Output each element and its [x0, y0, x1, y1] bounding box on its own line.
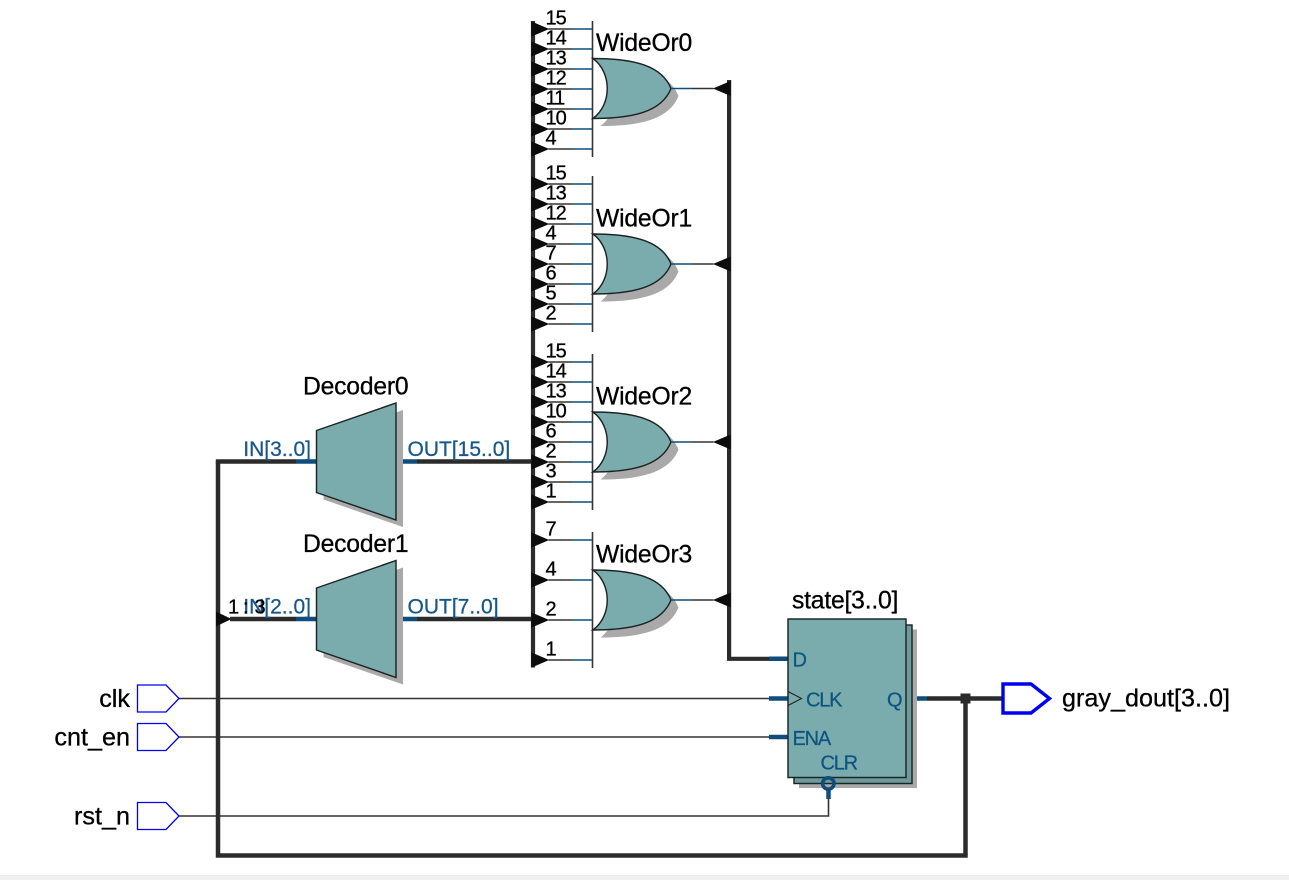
svg-text:Decoder1: Decoder1 — [303, 531, 408, 558]
WideOr3 input connector line — [592, 532, 594, 668]
wire: WideOr0 output to state bus — [671, 88, 692, 90]
svg-text:15: 15 — [546, 341, 567, 363]
svg-text:D: D — [793, 650, 807, 672]
Decoder0 shadow — [324, 410, 404, 527]
wire: rst_n net from pin, right then up to CLR — [179, 798, 829, 816]
svg-text:IN[3..0]: IN[3..0] — [243, 438, 311, 461]
bus ripper triangle for WideOr2 input 15 — [531, 354, 549, 369]
svg-text:OUT[7..0]: OUT[7..0] — [408, 596, 499, 619]
svg-text:13: 13 — [546, 183, 567, 205]
bus ripper triangle for WideOr0 input 4 — [531, 141, 549, 156]
bus ripper triangle for WideOr0 input 15 — [531, 21, 549, 36]
wire: bus tap to WideOr2 input 15 — [549, 361, 573, 363]
svg-text:3: 3 — [546, 461, 557, 483]
wire: bus tap to WideOr1 input 4 — [549, 243, 573, 245]
wire: Q output to gray_dout output pin — [927, 696, 1003, 701]
wire: bus tap to WideOr1 input 2 — [549, 323, 573, 325]
wire: bus tap to WideOr1 input 15 — [549, 183, 573, 185]
WideOr0 gate shadow — [601, 66, 679, 126]
bus ripper triangle for WideOr0 input 13 — [531, 61, 549, 76]
wire: bus tap to WideOr0 input 11 — [549, 108, 573, 110]
svg-text:1: 1 — [546, 639, 557, 661]
bus ripper triangle for WideOr0 input 14 — [531, 41, 549, 56]
decoder Decoder0 trapezoid — [317, 403, 397, 520]
svg-text:gray_dout[3..0]: gray_dout[3..0] — [1062, 685, 1230, 713]
bus ripper triangle at WideOr1 output — [713, 257, 731, 272]
wire: decoder output bus vertical column — [531, 21, 535, 668]
bus ripper triangle for WideOr1 input 5 — [531, 296, 549, 311]
WideOr2 gate shadow — [601, 420, 679, 480]
svg-text:12: 12 — [546, 68, 567, 90]
wire: bus tap to WideOr2 input 1 — [549, 501, 573, 503]
or-gate WideOr1 — [593, 234, 671, 294]
WideOr1 input connector line — [592, 176, 594, 332]
wire: bus tap to WideOr3 input 2 — [549, 619, 573, 621]
wire: D pin stub — [769, 657, 788, 662]
bus ripper triangle for WideOr0 input 10 — [531, 121, 549, 136]
bus ripper triangle for WideOr1 input 2 — [531, 316, 549, 331]
wire: Decoder1 OUT[7..0] bus to ripper column — [396, 617, 417, 622]
svg-text:CLK: CLK — [806, 690, 843, 712]
bus ripper triangle for WideOr1 input 13 — [531, 196, 549, 211]
svg-text:cnt_en: cnt_en — [54, 724, 130, 752]
wire: bus tap to WideOr0 input 10 — [549, 128, 573, 130]
wire: bus tap to WideOr0 input 4 — [549, 148, 573, 150]
wire: Q pin stub — [906, 696, 927, 701]
input pin symbol rst_n — [138, 803, 180, 830]
svg-text:2: 2 — [546, 599, 557, 621]
bus ripper triangle at WideOr3 output — [713, 593, 731, 608]
output pin symbol gray_dout[3..0] — [1003, 684, 1050, 713]
wire: bus tap to WideOr2 input 3 — [549, 481, 573, 483]
wire: ENA pin stub — [769, 735, 788, 740]
svg-text:Decoder0: Decoder0 — [303, 374, 408, 401]
svg-text:13: 13 — [546, 381, 567, 403]
bus ripper triangle for WideOr3 input 7 — [531, 532, 549, 547]
svg-text:2: 2 — [546, 303, 557, 325]
register state[3..0] main box — [788, 619, 906, 778]
svg-text:WideOr3: WideOr3 — [596, 542, 692, 569]
wire: bus into Decoder0 IN[3..0] — [216, 459, 296, 464]
wire: bus tap to WideOr1 input 12 — [549, 223, 573, 225]
wire: bus tap to WideOr1 input 6 — [549, 283, 573, 285]
or-gate WideOr2 — [593, 412, 671, 472]
wire: bus tap to WideOr3 input 7 — [549, 539, 573, 541]
WideOr0 input connector line — [592, 21, 594, 157]
svg-text:4: 4 — [546, 128, 557, 150]
svg-text:1: 1 — [546, 481, 557, 503]
svg-text:WideOr1: WideOr1 — [596, 206, 692, 233]
svg-text:15: 15 — [546, 163, 567, 185]
wire: bus tap to WideOr1 input 13 — [549, 203, 573, 205]
wire: bus tap to WideOr0 input 14 — [549, 48, 573, 50]
bus ripper triangle for WideOr1 input 15 — [531, 176, 549, 191]
svg-text:10: 10 — [546, 401, 567, 423]
svg-text:6: 6 — [546, 263, 557, 285]
svg-text:7: 7 — [546, 519, 557, 541]
wire: bus tap to WideOr2 input 14 — [549, 381, 573, 383]
wire: WideOr2 output to state bus — [671, 441, 692, 443]
svg-text:7: 7 — [546, 243, 557, 265]
svg-text:12: 12 — [546, 203, 567, 225]
bus ripper triangle for WideOr3 input 2 — [531, 612, 549, 627]
svg-text:14: 14 — [546, 361, 567, 383]
svg-text:WideOr0: WideOr0 — [596, 30, 692, 57]
svg-text:1:3: 1:3 — [228, 597, 266, 619]
wire: bus tap to WideOr2 input 2 — [549, 461, 573, 463]
wire: bus tap to WideOr1 input 7 — [549, 263, 573, 265]
junction dot on Q net — [961, 694, 971, 704]
CLR active-low bubble — [823, 778, 834, 789]
wire: CLK pin stub — [769, 696, 788, 701]
bus ripper triangle for WideOr2 input 13 — [531, 394, 549, 409]
wire: bus tap to WideOr0 input 13 — [549, 68, 573, 70]
svg-text:4: 4 — [546, 559, 557, 581]
bus ripper triangle for WideOr1 input 7 — [531, 256, 549, 271]
bus ripper triangle at WideOr0 output — [713, 81, 731, 96]
bus ripper triangle for WideOr2 input 14 — [531, 374, 549, 389]
bus ripper triangle for WideOr0 input 12 — [531, 81, 549, 96]
svg-text:5: 5 — [546, 283, 557, 305]
svg-text:CLR: CLR — [821, 753, 858, 775]
wire: bus into Decoder1 IN[2..0] — [230, 617, 296, 622]
svg-text:11: 11 — [546, 88, 566, 110]
wire: WideOr1 output to state bus — [671, 263, 692, 265]
svg-text:IN[2..0]: IN[2..0] — [243, 596, 311, 619]
wire: clk net from pin to CLK — [179, 698, 769, 700]
wire: WideOr3 output to state bus — [671, 599, 692, 601]
svg-text:2: 2 — [546, 441, 557, 463]
svg-text:Q: Q — [887, 690, 902, 712]
bus ripper triangle for WideOr3 input 1 — [531, 652, 549, 667]
wire: cnt_en net from pin to ENA — [179, 736, 769, 738]
svg-text:rst_n: rst_n — [74, 803, 130, 831]
WideOr3 gate shadow — [601, 578, 679, 638]
input pin symbol cnt_en — [138, 724, 180, 751]
decoder Decoder1 trapezoid — [317, 561, 397, 678]
bus ripper triangle feeding Decoder1 — [216, 612, 232, 627]
register state[3..0] shadow — [799, 630, 917, 789]
clock edge triangle on CLK pin — [788, 692, 802, 706]
input pin symbol clk — [138, 685, 180, 712]
bus ripper triangle at WideOr2 output — [713, 435, 731, 450]
svg-text:6: 6 — [546, 421, 557, 443]
wire: wide-or outputs bus down to register D — [729, 80, 769, 659]
wire: bus tap to WideOr2 input 10 — [549, 421, 573, 423]
svg-text:WideOr2: WideOr2 — [596, 384, 692, 411]
svg-text:14: 14 — [546, 28, 567, 50]
wire: bus tap to WideOr3 input 4 — [549, 579, 573, 581]
svg-text:OUT[15..0]: OUT[15..0] — [408, 438, 511, 461]
svg-text:4: 4 — [546, 223, 557, 245]
bus ripper triangle for WideOr2 input 10 — [531, 414, 549, 429]
bus ripper triangle for WideOr2 input 6 — [531, 434, 549, 449]
wire: bus tap to WideOr0 input 15 — [549, 28, 573, 30]
wire: bus tap to WideOr3 input 1 — [549, 659, 573, 661]
svg-text:clk: clk — [99, 685, 130, 713]
svg-text:13: 13 — [546, 48, 567, 70]
bus ripper triangle for WideOr3 input 4 — [531, 572, 549, 587]
wire: bus tap to WideOr1 input 5 — [549, 303, 573, 305]
wire: bus tap to WideOr0 input 12 — [549, 88, 573, 90]
WideOr2 input connector line — [592, 354, 594, 510]
or-gate WideOr3 — [593, 570, 671, 630]
wire: bus tap to WideOr2 input 13 — [549, 401, 573, 403]
Decoder1 shadow — [324, 568, 404, 685]
bus ripper triangle for WideOr2 input 2 — [531, 454, 549, 469]
wire: feedback bus vertical (state[3..0]) on far left — [218, 462, 966, 856]
bus ripper triangle for WideOr1 input 12 — [531, 216, 549, 231]
svg-text:10: 10 — [546, 108, 567, 130]
or-gate WideOr0 — [593, 59, 671, 119]
register state[3..0] back box — [794, 625, 912, 784]
wire: bus tap to WideOr2 input 6 — [549, 441, 573, 443]
svg-text:state[3..0]: state[3..0] — [792, 588, 898, 615]
svg-text:15: 15 — [546, 8, 567, 30]
bus ripper triangle for WideOr2 input 1 — [531, 494, 549, 509]
wire: CLR pin stub below bubble — [826, 790, 831, 800]
svg-text:ENA: ENA — [793, 728, 832, 750]
bus ripper triangle for WideOr1 input 4 — [531, 236, 549, 251]
bus ripper triangle for WideOr2 input 3 — [531, 474, 549, 489]
wire: Decoder0 OUT[15..0] bus to ripper column — [396, 459, 417, 464]
WideOr1 gate shadow — [601, 242, 679, 302]
bus ripper triangle for WideOr0 input 11 — [531, 101, 549, 116]
status bar — [0, 875, 1289, 876]
bus ripper triangle for WideOr1 input 6 — [531, 276, 549, 291]
